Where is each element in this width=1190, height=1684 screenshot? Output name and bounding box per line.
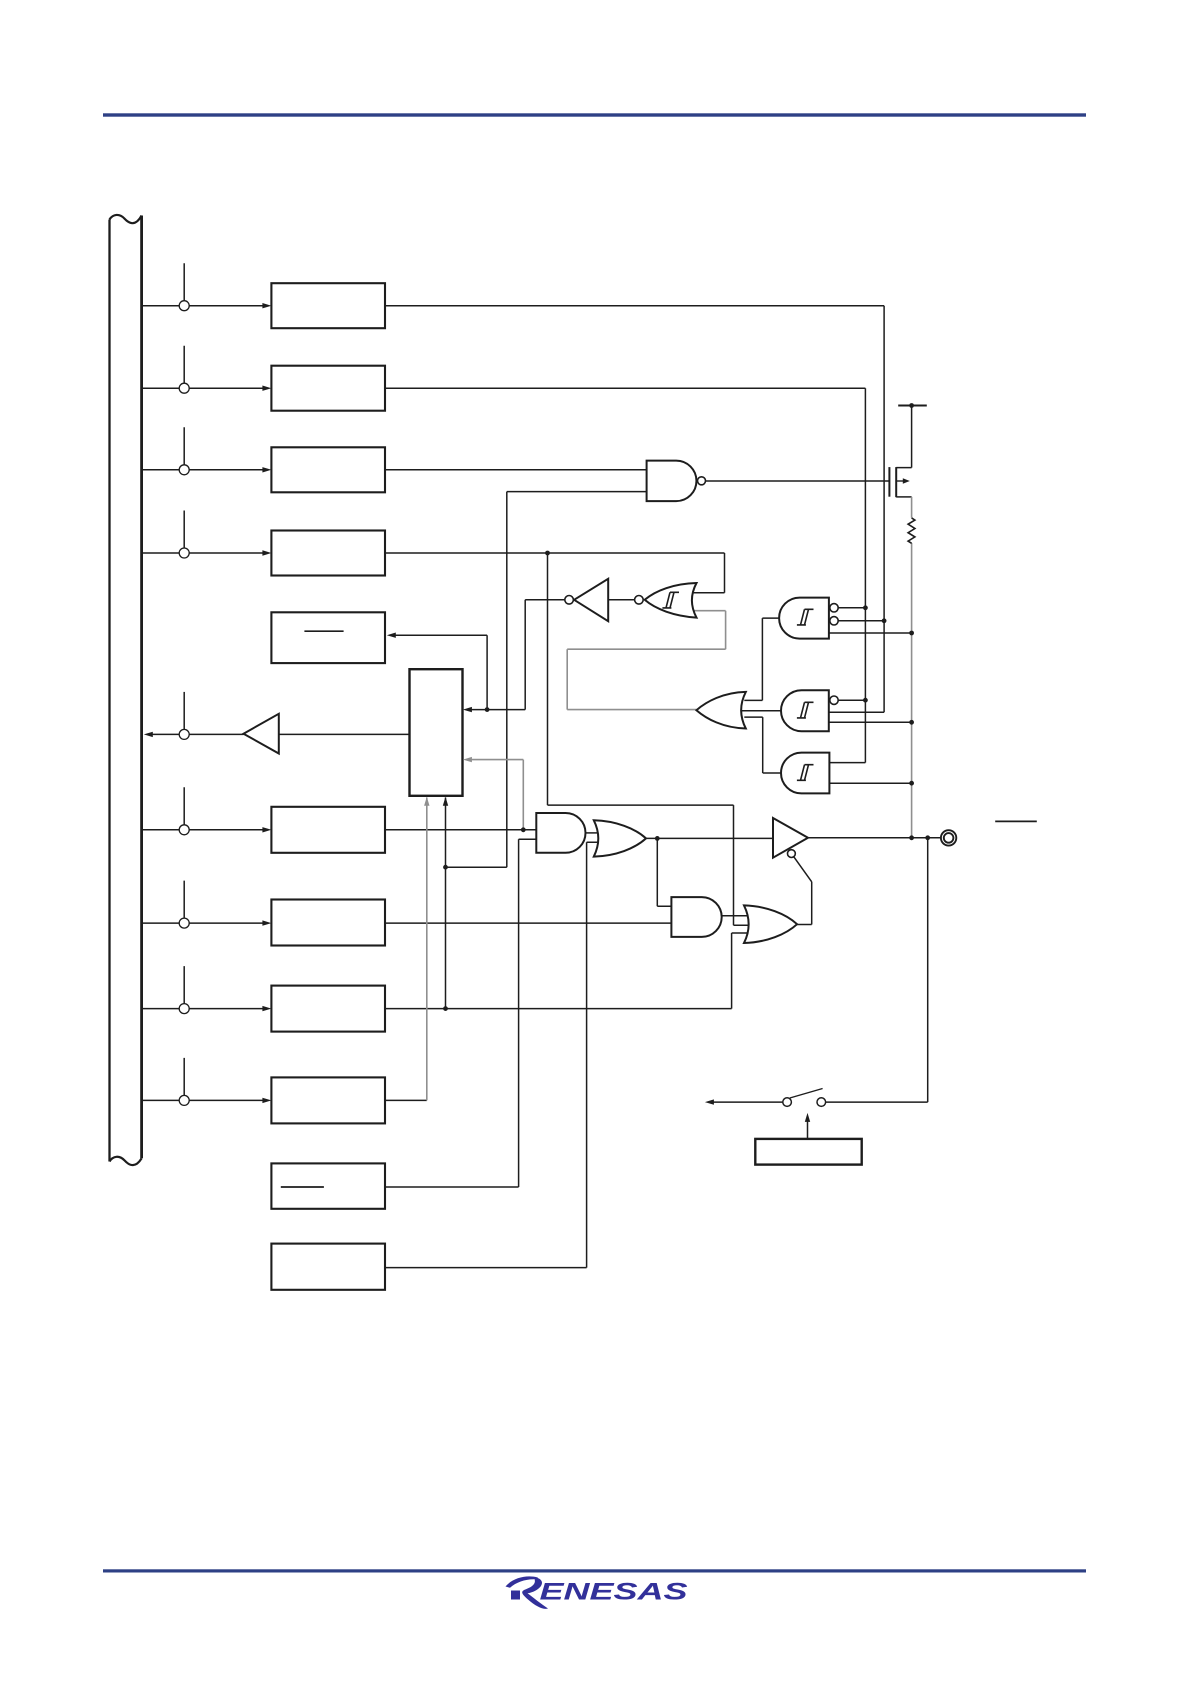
node tap row2 (179, 383, 189, 393)
hysteresis symbol NOR (662, 592, 679, 608)
node tap row8 (179, 1004, 189, 1014)
wire row3 tap (143, 427, 264, 470)
junction row8 to NAND branch (443, 865, 448, 870)
arrow into R4 (262, 550, 271, 555)
tri-state buffer (773, 818, 808, 858)
svg-text:ENESAS: ENESAS (540, 1579, 689, 1606)
bubble NAND (698, 477, 706, 485)
node tap row7 (179, 918, 189, 928)
node tap row6 (179, 825, 189, 835)
wire row5 inverter output to bus (152, 733, 244, 735)
bubble NOR (635, 596, 644, 605)
AND1 gate (536, 813, 585, 853)
label overline in box10 (281, 1186, 324, 1188)
wire branch to box5a (395, 635, 488, 709)
register R4 (271, 531, 385, 576)
wire Schmitt-AND1 bubble2 line (838, 620, 884, 622)
bubble inverter (565, 596, 574, 605)
register box10 (271, 1163, 385, 1208)
Schmitt AND2 (left pointing) (781, 690, 829, 731)
wire row9 up to control register bottom (426, 798, 428, 1101)
register R2 (271, 366, 385, 411)
transistor Q1 channel bar (895, 467, 897, 497)
switch control box (755, 1139, 861, 1165)
wire box10 output to AND1 input 2 (385, 839, 536, 1187)
bubble Schmitt AND1 input1 (830, 604, 838, 612)
wire row6 tap (143, 787, 264, 830)
junction resistor trunk at Schmitt AND2 input3 (909, 720, 914, 725)
bubble Schmitt AND2 input1 (830, 696, 838, 704)
OR3 gate (left pointing) (696, 692, 745, 729)
wire row8 tap (143, 966, 264, 1009)
wire Schmitt-AND1 bubble1 line (838, 607, 865, 609)
wire row5 tap (183, 692, 185, 730)
switch lever (790, 1089, 823, 1099)
Schmitt AND1 (left pointing) (779, 598, 829, 639)
control register block (410, 669, 463, 796)
arrow into R7 (262, 920, 271, 925)
arrow switch to port (705, 1099, 714, 1104)
junction inverter trunk branch (485, 707, 490, 712)
hysteresis symbol Schmitt AND2 (797, 702, 814, 718)
inverter after NOR (574, 579, 608, 621)
junction OR1 output branch (655, 836, 660, 841)
WIRES-GRAY (427, 497, 912, 1101)
junction trunk B at Schmitt AND2 bubble (863, 698, 868, 703)
register R9 (271, 1077, 385, 1123)
node tap row5 (179, 729, 189, 739)
wire inverter output trunk (525, 600, 565, 710)
Schmitt AND3 (left pointing) (781, 753, 829, 794)
wire row8 up to control register bottom (445, 798, 447, 1009)
wire box11 output to OR1 input 2 (385, 842, 598, 1267)
header rule (103, 113, 1086, 116)
junction power rail at MOS drain (909, 403, 914, 408)
arrow into box5a (387, 633, 396, 638)
arrow into R9 (262, 1098, 271, 1103)
switch contact left (783, 1098, 792, 1107)
wire row2 tap (143, 346, 264, 389)
wire pin to switch (826, 838, 928, 1102)
wire row2 to trunk B (385, 388, 865, 762)
junction trunk A at Schmitt AND1 bubble2 (882, 618, 887, 623)
wire AND1 output to OR1 (586, 832, 601, 834)
wire OR1 output to buffer (646, 837, 773, 839)
wire row9 stub (385, 1099, 427, 1101)
junction resistor trunk at Schmitt AND1 input3 (909, 631, 914, 636)
wire row6 branch to control register input 2 (470, 760, 523, 830)
wire row9 tap (143, 1058, 264, 1101)
junction resistor trunk at Schmitt AND3 input2 (909, 781, 914, 786)
node tap row1 (179, 301, 189, 311)
wire NAND output to MOS gate (705, 480, 889, 482)
wire row6 to AND1 input 1 (385, 829, 536, 831)
arrow into R6 (262, 827, 271, 832)
wire Schmitt-AND2 input 3 (829, 721, 912, 723)
bubble Schmitt AND1 input2 (830, 617, 838, 625)
wire switch control (807, 1119, 809, 1139)
wire row4 to NOR input 1 (385, 553, 725, 593)
wire row7 tap (143, 881, 264, 924)
wire switch to left arrow (712, 1101, 783, 1103)
register R6 (271, 807, 385, 853)
wire Schmitt-AND3 input 2 (829, 782, 911, 784)
arrow into R2 (262, 386, 271, 391)
internal bus right rail (140, 216, 143, 1159)
hysteresis symbol Schmitt AND1 (797, 609, 814, 625)
OR1 gate (594, 820, 646, 856)
junction row4 branch (545, 551, 550, 556)
label overline at pin name (995, 820, 1037, 822)
hysteresis symbol Schmitt AND3 (797, 765, 814, 781)
footer rule (103, 1569, 1086, 1572)
wire NAND input 2 from row8 branch (446, 492, 647, 868)
wire row3 to NAND input 1 (385, 469, 647, 471)
pull-up resistor (908, 518, 915, 543)
internal bus top break wave (110, 215, 142, 223)
junction row6 branch (521, 827, 526, 832)
wire pull-up resistor trunk (911, 497, 913, 838)
Renesas logo (506, 1576, 689, 1608)
wire NOR bubble to inverter (608, 599, 634, 601)
arrow row5 into bus (144, 732, 153, 737)
transistor Q1 body arrow line (896, 480, 904, 482)
node tap row3 (179, 465, 189, 475)
register R3 (271, 447, 385, 492)
junction row8 up branch (443, 1006, 448, 1011)
node tap row4 (179, 548, 189, 558)
internal bus bottom break wave (110, 1157, 142, 1165)
wire OR1 branch to AND2 input 1 (657, 838, 671, 906)
register R8 (271, 986, 385, 1032)
arrow into control register bottom from row8 (443, 797, 448, 806)
wire row7 to AND2 input 2 (385, 922, 671, 924)
wire row4 branch to OR2 input 2 (548, 553, 752, 925)
junction resistor trunk at pad line (909, 835, 914, 840)
arrow switch control (805, 1113, 810, 1122)
arrow into R3 (262, 467, 271, 472)
OR2 gate (744, 905, 797, 943)
arrow gray into control register input2 (463, 757, 472, 762)
register R1 (271, 283, 385, 328)
hysteresis symbols (662, 592, 813, 780)
wire row5 inverter input from control register (279, 733, 410, 735)
register boxes left column (271, 283, 385, 1290)
switch contact right (817, 1098, 826, 1107)
register R7 (271, 900, 385, 946)
AND2 gate (671, 897, 721, 937)
row5 inverter triangle (244, 714, 279, 754)
register box5a (271, 612, 385, 663)
wire MOS drain (896, 406, 911, 468)
wire Schmitt-AND1 output to OR3 (744, 618, 779, 700)
wire buffer output to pin (808, 837, 941, 839)
wire into control register right input 1 (470, 709, 525, 711)
arrow gray into control register bottom from row9 (424, 797, 429, 806)
transistor Q1 body arrowhead (903, 478, 910, 483)
bus rows: taps (143, 263, 264, 1100)
wire Schmitt-AND2 output to OR3 (741, 710, 781, 712)
node tap row9 (179, 1095, 189, 1105)
inversion bubbles (565, 477, 838, 858)
transistor Q1 gate bar (888, 467, 890, 497)
NAND gate (647, 461, 697, 502)
junction switch branch at pad line (925, 835, 930, 840)
wire MOS source (896, 496, 911, 498)
power rail stub (898, 405, 927, 407)
wire Schmitt-AND1 input 3 (829, 632, 912, 634)
arrow into R8 (262, 1006, 271, 1011)
wire Schmitt-AND2 bubble line (838, 699, 865, 701)
internal bus left rail (108, 220, 110, 1162)
GATES (244, 461, 830, 943)
bubble buffer enable (788, 850, 796, 858)
wire row1 tap (143, 263, 264, 306)
wire Schmitt-AND2 input 2 (829, 711, 884, 713)
WIRES-BLACK (152, 306, 941, 1268)
wire OR3 output Z-path to NOR input 2 (567, 611, 725, 710)
wire Schmitt-AND3 output to OR3 (744, 717, 781, 773)
wire OR2 output to buffer enable (794, 857, 812, 925)
arrow into R1 (262, 303, 271, 308)
arrowheads (144, 303, 810, 1122)
register box11 (271, 1244, 385, 1290)
I/O pin inner circle (944, 833, 954, 843)
wire AND2 output to OR2 input 1 (722, 915, 749, 917)
arrow into control register input1 (463, 707, 472, 712)
Schmitt NOR gate (left pointing) (645, 583, 697, 618)
wire row1 to trunk A (385, 306, 884, 713)
I/O pin outer circle (941, 830, 956, 845)
label overline in box5a (304, 630, 343, 632)
wire row4 tap (143, 511, 264, 554)
junction trunk B at Schmitt AND1 bubble1 (863, 605, 868, 610)
wire row8 to OR2 input 3 (385, 933, 750, 1009)
